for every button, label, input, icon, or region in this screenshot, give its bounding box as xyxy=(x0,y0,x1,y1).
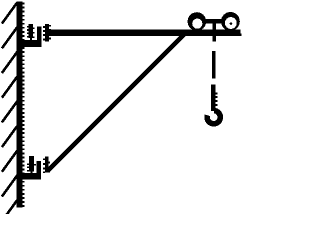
lower bracket upright xyxy=(36,161,41,179)
wall surface ticks xyxy=(23,3,25,207)
upper bracket right plate ticks xyxy=(43,25,51,41)
diagonal strut xyxy=(48,32,187,171)
wall line xyxy=(16,2,22,208)
lower bracket arm xyxy=(16,173,41,179)
lower bracket left plate xyxy=(29,156,34,171)
trolley post xyxy=(213,23,217,41)
beam xyxy=(49,30,240,36)
hook loop xyxy=(207,111,220,124)
left pulley wheel xyxy=(188,12,207,31)
upper bracket right plate xyxy=(45,24,49,41)
upper bracket upright xyxy=(37,27,42,41)
beam right end bump xyxy=(241,33,242,36)
cable dash xyxy=(212,51,216,79)
hook shank xyxy=(211,84,215,111)
lower bracket right plate ticks xyxy=(43,158,50,173)
hook shank ticks xyxy=(216,92,218,106)
right pulley wheel xyxy=(221,12,240,31)
upper bracket arm xyxy=(16,40,41,47)
wall hatching xyxy=(2,3,17,222)
upper bracket left plate ticks xyxy=(27,26,35,40)
lower bracket left plate ticks xyxy=(27,163,36,173)
lower bracket right plate xyxy=(45,156,49,172)
upper bracket left plate xyxy=(29,24,34,38)
trolley crossbar xyxy=(204,19,222,23)
